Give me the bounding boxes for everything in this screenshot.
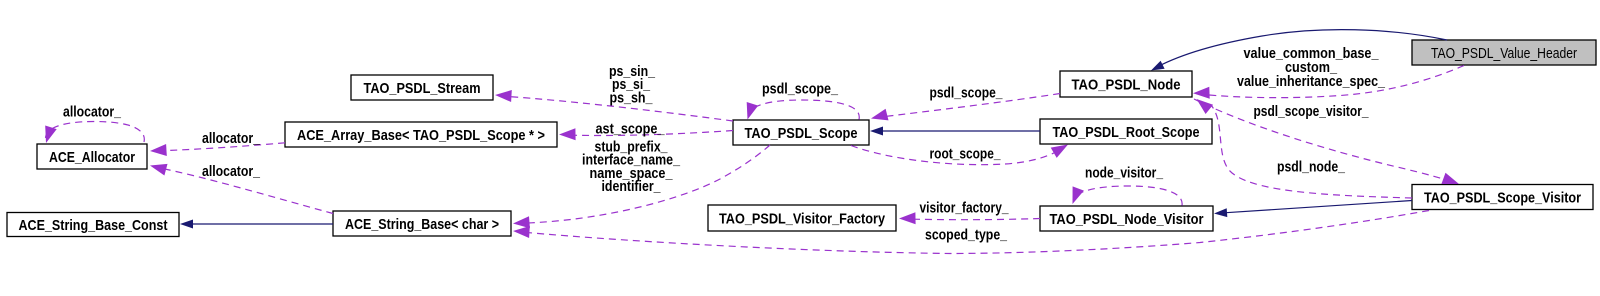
node TAO_PSDL_Scope <box>733 120 869 145</box>
node TAO_PSDL_Visitor_Factory <box>708 205 896 231</box>
svg-text:ps_sh_: ps_sh_ <box>610 89 654 106</box>
edge ast_scope_ TAO_PSDL_Scope -> ACE_Array_Base <box>559 128 733 140</box>
svg-text:ACE_String_Base_Const: ACE_String_Base_Const <box>19 217 168 234</box>
svg-text:scoped_type_: scoped_type_ <box>925 227 1008 244</box>
svg-text:TAO_PSDL_Scope_Visitor: TAO_PSDL_Scope_Visitor <box>1424 189 1581 206</box>
svg-text:psdl_scope_: psdl_scope_ <box>930 85 1004 102</box>
edge stub_prefix_/interface_name_/name_space_/identifier_ TAO_PSDL_Scope -> ACE_String_Base <box>513 145 770 228</box>
svg-text:psdl_scope_: psdl_scope_ <box>762 81 839 98</box>
node ACE_Allocator <box>37 144 147 169</box>
node ACE_String_Base&lt; char &gt; <box>333 211 511 236</box>
node ACE_Array_Base&lt; TAO_PSDL_Scope * &gt; <box>285 122 557 147</box>
edge root_scope_ TAO_PSDL_Scope -> TAO_PSDL_Root_Scope <box>851 145 1068 165</box>
edge value_common_base_/custom_/value_inheritance_spec_ TAO_PSDL_Value_Header -> TAO_PSDL_Node <box>1193 66 1464 99</box>
svg-text:psdl_node_: psdl_node_ <box>1277 159 1346 176</box>
svg-text:TAO_PSDL_Root_Scope: TAO_PSDL_Root_Scope <box>1053 124 1200 141</box>
node TAO_PSDL_Node_Visitor <box>1040 206 1213 231</box>
svg-text:TAO_PSDL_Value_Header: TAO_PSDL_Value_Header <box>1431 45 1577 62</box>
node TAO_PSDL_Root_Scope <box>1040 119 1212 144</box>
svg-text:identifier_: identifier_ <box>602 178 662 195</box>
svg-text:TAO_PSDL_Visitor_Factory: TAO_PSDL_Visitor_Factory <box>719 210 886 227</box>
edge psdl_scope_ self-loop on TAO_PSDL_Scope <box>747 100 860 120</box>
node TAO_PSDL_Value_Header (current, grey) <box>1412 40 1596 65</box>
node TAO_PSDL_Node <box>1060 71 1192 97</box>
edge scoped_type_ TAO_PSDL_Scope_Visitor -> ACE_String_Base <box>513 211 1429 254</box>
svg-text:allocator_: allocator_ <box>202 163 261 180</box>
edge allocator_ ACE_String_Base -> ACE_Allocator <box>150 164 333 214</box>
node TAO_PSDL_Stream <box>351 75 493 100</box>
svg-text:psdl_scope_visitor_: psdl_scope_visitor_ <box>1254 103 1370 120</box>
inheritance TAO_PSDL_Scope_Visitor -> TAO_PSDL_Node_Visitor <box>1214 201 1412 218</box>
svg-text:ast_scope_: ast_scope_ <box>596 121 666 138</box>
edge node_visitor_ self-loop on TAO_PSDL_Node_Visitor <box>1073 186 1183 206</box>
svg-text:TAO_PSDL_Stream: TAO_PSDL_Stream <box>364 80 481 97</box>
svg-text:TAO_PSDL_Node: TAO_PSDL_Node <box>1072 76 1181 93</box>
svg-text:visitor_factory_: visitor_factory_ <box>920 200 1010 217</box>
svg-text:allocator_: allocator_ <box>63 104 122 121</box>
svg-text:root_scope_: root_scope_ <box>930 146 1002 163</box>
svg-text:TAO_PSDL_Node_Visitor: TAO_PSDL_Node_Visitor <box>1050 211 1204 228</box>
node ACE_String_Base_Const <box>7 213 179 237</box>
svg-text:TAO_PSDL_Scope: TAO_PSDL_Scope <box>745 125 858 142</box>
edge allocator_ ACE_Array_Base -> ACE_Allocator <box>150 143 285 156</box>
node TAO_PSDL_Scope_Visitor <box>1412 185 1593 210</box>
svg-text:allocator_: allocator_ <box>202 130 261 147</box>
edge psdl_scope_ TAO_PSDL_Node -> TAO_PSDL_Scope <box>871 94 1060 121</box>
svg-text:ACE_Allocator: ACE_Allocator <box>49 149 135 166</box>
inheritance TAO_PSDL_Root_Scope -> TAO_PSDL_Scope <box>870 127 1040 136</box>
edge psdl_node_ TAO_PSDL_Scope_Visitor -> TAO_PSDL_Node <box>1197 99 1413 198</box>
edge ps_sin_/ps_si_/ps_sh_ TAO_PSDL_Scope -> TAO_PSDL_Stream <box>495 90 733 121</box>
edge psdl_scope_visitor_ TAO_PSDL_Node -> TAO_PSDL_Scope_Visitor <box>1194 99 1459 184</box>
svg-text:ACE_Array_Base< TAO_PSDL_Scope: ACE_Array_Base< TAO_PSDL_Scope * > <box>297 127 545 144</box>
inheritance TAO_PSDL_Value_Header -> TAO_PSDL_Node <box>1157 30 1447 67</box>
inheritance ACE_String_Base&lt;char&gt; -> ACE_String_Base_Const <box>180 220 333 229</box>
svg-text:value_inheritance_spec_: value_inheritance_spec_ <box>1237 73 1386 90</box>
svg-text:ACE_String_Base< char >: ACE_String_Base< char > <box>345 216 499 233</box>
edge visitor_factory_ TAO_PSDL_Node_Visitor -> TAO_PSDL_Visitor_Factory <box>899 212 1040 224</box>
svg-text:node_visitor_: node_visitor_ <box>1085 165 1164 182</box>
edge allocator_ self-loop on ACE_Allocator <box>45 122 144 144</box>
